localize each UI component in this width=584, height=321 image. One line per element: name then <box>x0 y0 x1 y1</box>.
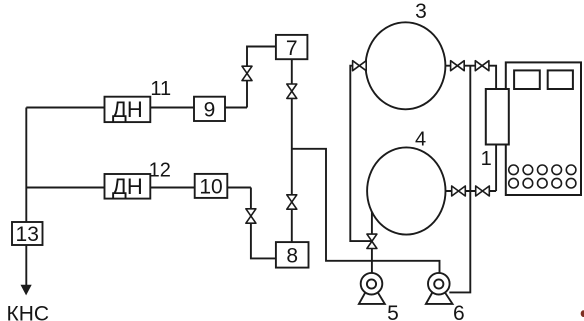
pump 6 base <box>426 292 453 304</box>
wire: vessel 4 bottom through valve to pump 5 <box>371 211 373 274</box>
valve (right of vessel 4 inner, horizontal) <box>452 186 466 196</box>
pump 5 impeller <box>367 279 376 288</box>
wire: pump 6 outlet riser up to valve rows <box>449 66 470 293</box>
valve (below box 7, vertical) <box>287 84 297 98</box>
wire: upper bus from left riser to valve riser (y=107.5) <box>26 107 247 109</box>
wire: vessel 3 right row to heat-exchanger 1 top <box>445 66 496 191</box>
valve (right of vessel 4 outer, horizontal) <box>476 186 490 196</box>
svg-text:7: 7 <box>286 37 298 60</box>
valve (right of vessel 3 inner, horizontal) <box>451 61 465 71</box>
svg-text:11: 11 <box>150 78 171 100</box>
vessel 4 <box>367 147 445 234</box>
box 10 <box>195 174 228 198</box>
box ДН upper (11) <box>105 97 151 122</box>
svg-text:8: 8 <box>286 244 298 267</box>
wire: riser from upper bus up to box 7 inlet <box>247 47 276 108</box>
panel window B <box>548 70 573 89</box>
pump 5 base <box>359 292 385 304</box>
svg-text:13: 13 <box>16 223 39 246</box>
wire: lower bus from left riser to valve riser (y=187.5) <box>26 187 251 189</box>
wire: vessel 4 right row to riser <box>446 190 497 192</box>
valve (between box 10 and box 8, vertical) <box>246 209 256 223</box>
panel button row 1 <box>509 165 576 175</box>
svg-text:3: 3 <box>415 0 427 23</box>
pump 6 body <box>428 273 450 295</box>
wire: branch from box7 line to pump 6 top <box>292 149 440 273</box>
svg-text:10: 10 <box>199 175 222 198</box>
wire: left riser x=26.3 down to box 13 <box>25 108 27 223</box>
wire: vessel 3 left valve branch down to pump 5 valve <box>350 66 372 241</box>
svg-text:9: 9 <box>204 98 216 121</box>
wire: riser from box 10 bus down to box 8 left inlet <box>251 188 276 259</box>
panel button row 2 <box>509 178 576 188</box>
valve (right of vessel 3 outer, horizontal) <box>475 61 489 71</box>
control panel 2 <box>506 62 581 195</box>
svg-text:1: 1 <box>481 148 492 170</box>
box 8 <box>276 242 309 268</box>
svg-text:4: 4 <box>415 128 426 150</box>
heat exchanger 1 <box>486 89 509 145</box>
box 13 <box>12 222 43 245</box>
valve (riser to box 7, vertical) <box>242 66 252 80</box>
pump 6 impeller <box>434 279 443 288</box>
svg-text:ДН: ДН <box>112 174 143 199</box>
svg-text:КНС: КНС <box>7 302 50 321</box>
wire: outlet of box 13 down to arrow <box>25 245 27 285</box>
valve (left of vessel 3, horizontal) <box>353 61 367 71</box>
panel window A <box>514 70 540 89</box>
wire: box 7 outlet down to box 8 top <box>291 59 293 242</box>
svg-text:6: 6 <box>453 302 465 321</box>
red mark bottom-right <box>581 310 584 317</box>
pump 5 body <box>361 273 383 295</box>
arrow to КНС <box>21 285 32 296</box>
box ДН lower (12) <box>105 174 151 199</box>
svg-text:ДН: ДН <box>112 97 143 122</box>
svg-text:5: 5 <box>387 302 399 321</box>
box 7 <box>276 35 308 59</box>
valve (above box 8, vertical) <box>287 195 297 209</box>
box 9 <box>194 97 225 121</box>
svg-text:12: 12 <box>149 159 171 181</box>
vessel 3 <box>366 22 446 109</box>
valve (above pump 5, vertical) <box>367 234 377 248</box>
